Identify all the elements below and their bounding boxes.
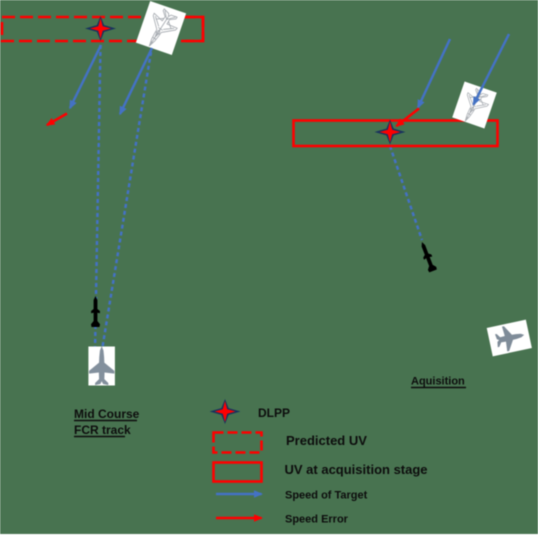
wire: dashed blue track line B from top-left aircraft to mid-course jet — [102, 52, 151, 350]
speed error arrow D (red, lower-left) — [47, 114, 67, 126]
legend speed of target arrow (blue) — [216, 493, 262, 496]
wire: dashed blue track line A from left DLPP star to mid-course jet — [95, 45, 101, 351]
svg-text:Predicted UV: Predicted UV — [286, 433, 367, 448]
underline Mid Course — [74, 420, 137, 422]
DLPP star S2 (right) — [375, 120, 406, 145]
legend predicted UV swatch (dashed red rectangle) — [214, 433, 262, 453]
speed error arrow H (red, to right star) — [397, 109, 420, 127]
acquisition jet P4 (white box, gray fighter pointing right) — [487, 320, 532, 357]
speed of target arrow G (into right aircraft) — [474, 34, 510, 105]
underline FCR track — [74, 436, 125, 438]
aircraft image P1 (top-left, rotated sketch) — [135, 1, 186, 57]
wire: dashed blue line I from right star to missile M2 — [390, 146, 422, 240]
svg-text:Speed Error: Speed Error — [285, 514, 349, 526]
legend speed error arrow (red) — [216, 517, 262, 520]
svg-text:Speed of Target: Speed of Target — [285, 490, 368, 502]
svg-text:UV at acquisition stage: UV at acquisition stage — [285, 462, 428, 477]
label: Mid Course FCR track — [74, 407, 140, 437]
speed of target arrow C (from left star) — [70, 45, 101, 108]
legend DLPP star S3 — [210, 399, 241, 424]
svg-text:FCR track: FCR track — [74, 423, 131, 437]
speed of target arrow E (from top-left aircraft) — [120, 48, 152, 114]
UV at acquisition rectangle (solid, right) — [294, 121, 498, 147]
missile M2 (right, tilted) — [418, 240, 438, 272]
svg-text:Aquisition: Aquisition — [411, 376, 465, 388]
DLPP star S1 (left) — [85, 16, 116, 41]
svg-text:DLPP: DLPP — [258, 406, 290, 420]
predicted UV rectangle solid right corner cap — [184, 17, 203, 41]
mid-course jet P3 (white box with gray fighter) — [88, 346, 115, 385]
svg-text:Mid Course: Mid Course — [74, 407, 140, 421]
missile M1 (left, on track line) — [91, 296, 100, 327]
speed of target arrow F (right diagram) — [418, 39, 450, 108]
legend UV at acquisition swatch (solid red rectangle) — [214, 463, 262, 482]
underline Aquisition — [411, 387, 466, 389]
aircraft image P2 (top-right, rotated sketch) — [452, 82, 497, 130]
predicted UV rectangle (dashed, top-left) — [2, 17, 203, 41]
